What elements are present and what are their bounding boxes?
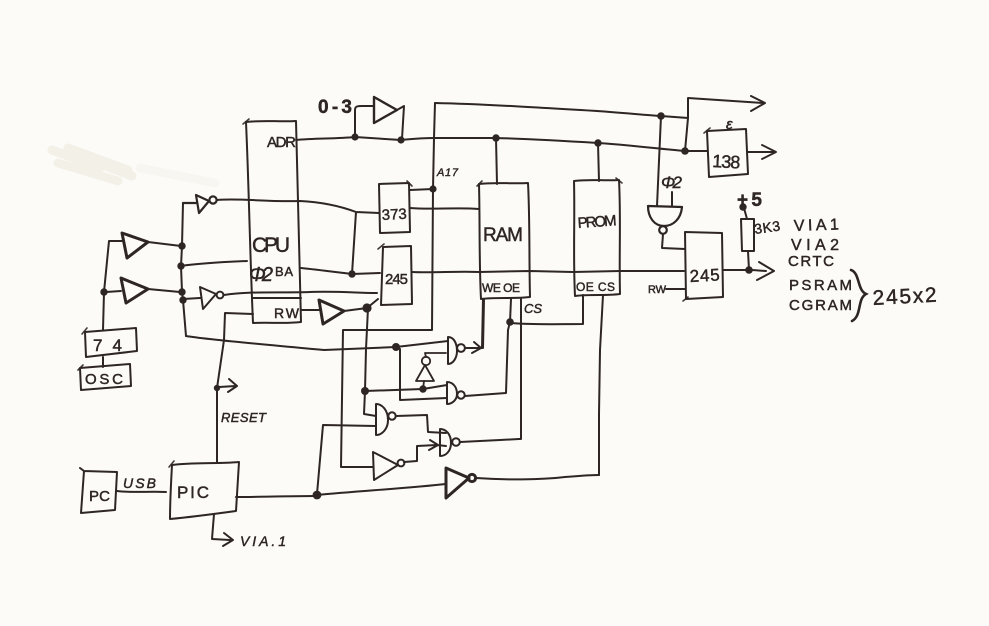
svg-text:0-3: 0-3 bbox=[318, 97, 352, 118]
wire PROM CS pin down long right vertical bbox=[599, 295, 603, 475]
svg-text:ADR: ADR bbox=[267, 134, 296, 151]
svg-text:138: 138 bbox=[712, 151, 741, 172]
svg-text:BA: BA bbox=[275, 264, 293, 279]
resistor R1 3K3 bbox=[741, 219, 754, 251]
wire N2 output across CPU to 245 left edge bbox=[224, 292, 377, 295]
wire RESET from CPU left edge bbox=[217, 313, 253, 462]
inverter N3 (pointing up between NANDs) bbox=[416, 353, 446, 389]
buffer B4 address 0-3 bypass bbox=[355, 106, 374, 137]
box 74 divider bbox=[85, 328, 137, 357]
svg-text:OE CS: OE CS bbox=[576, 280, 615, 294]
wire A17 long net top corner down and around to inverter N4 bbox=[341, 103, 435, 467]
node dot RW junction bbox=[362, 303, 371, 312]
wire 373 to A17 node bbox=[410, 189, 433, 190]
svg-text:PC: PC bbox=[89, 488, 110, 505]
arrow VIA1 from PIC bottom bbox=[212, 514, 233, 546]
arrow reset tap bbox=[219, 379, 237, 392]
wire BA bus CPU to 245a bbox=[301, 268, 380, 274]
box 245b bbox=[685, 232, 723, 299]
wire RW to NAND2 input bbox=[365, 385, 447, 391]
box 138 decoder bbox=[707, 129, 748, 177]
wire data bus 245a through RAM PROM to 245b bbox=[412, 271, 684, 272]
svg-text:245: 245 bbox=[385, 271, 408, 288]
box 373 latch bbox=[379, 183, 410, 233]
svg-text:RESET: RESET bbox=[221, 410, 267, 425]
svg-text:Φ2: Φ2 bbox=[249, 264, 273, 286]
wire RAM CS pin down to NAND4 out bbox=[519, 299, 521, 439]
gate NAND3 bbox=[376, 404, 396, 435]
label phi2 stub bbox=[671, 192, 673, 206]
wire node bus vertical (phi2 net) bbox=[181, 203, 186, 336]
node dot phi2 branch bbox=[177, 262, 184, 269]
wire resistor to output node bbox=[748, 251, 749, 270]
svg-text:245: 245 bbox=[689, 265, 720, 286]
buffer B2 (clock buffer lower) bbox=[121, 278, 148, 303]
wire phi2 into CPU bbox=[181, 261, 247, 266]
wire N1 output across CPU to 373 and BA node bbox=[217, 199, 379, 274]
wire phi2 net down to NAND row bbox=[186, 336, 396, 350]
node dot E to nand bbox=[657, 112, 665, 120]
node dot OE bbox=[506, 318, 514, 326]
box CPU bbox=[246, 121, 301, 323]
node dot B2 out bbox=[178, 288, 185, 295]
wire PIC net up to NAND3 bottom input bbox=[317, 425, 376, 494]
corner overshoot ticks bbox=[78, 119, 710, 467]
svg-text:RAM: RAM bbox=[483, 225, 523, 246]
wire PROM top feed bbox=[598, 143, 599, 181]
wire RAM OE pin down to OE node bbox=[510, 299, 511, 322]
buffer B1 (clock buffer top-left) bbox=[122, 233, 148, 258]
node dot BA to 373 bbox=[348, 270, 355, 277]
pencil smudge top-left bbox=[52, 148, 215, 183]
wire N4 out to NAND4 bottom input with arrowhead bbox=[404, 440, 446, 462]
node dot +5 bbox=[739, 203, 746, 210]
wire NAND5 out to 245b bbox=[662, 234, 685, 249]
box PIC bbox=[170, 462, 239, 519]
wire RAM top feed bbox=[496, 138, 497, 184]
inverter N4 (before NAND4) bbox=[373, 452, 404, 480]
wire RW node to 245a corner bbox=[367, 299, 378, 308]
node dot A17 bbox=[429, 185, 436, 192]
arrow 138 output bbox=[748, 145, 776, 159]
svg-text:CGRAM: CGRAM bbox=[789, 297, 852, 314]
svg-text:A17: A17 bbox=[436, 167, 459, 179]
wire NAND4 out right then up to RAM CS bbox=[460, 439, 519, 442]
wire NAND1 out to RAM WE with arrowhead bbox=[465, 299, 483, 353]
wire OE node to PROM OE pin bbox=[510, 295, 583, 324]
box OSC oscillator bbox=[80, 364, 131, 390]
inverter N2 (mid, phi2 tap) bbox=[183, 287, 223, 309]
gate NAND1 (WE) bbox=[448, 337, 457, 364]
wire B5 out long to PROM CS vertical bbox=[476, 475, 599, 479]
svg-text:245x2: 245x2 bbox=[872, 284, 937, 310]
wire 373 to RAM bbox=[410, 208, 479, 209]
wire PIC net to buffer B5 bbox=[317, 484, 446, 495]
node dot E to 138 bbox=[681, 147, 689, 155]
box RAM bbox=[479, 183, 530, 299]
svg-text:OSC: OSC bbox=[85, 371, 123, 388]
wire NAND2 out up to OE node bbox=[465, 322, 510, 396]
wire 245b output with arrowhead bbox=[723, 262, 774, 280]
wire B2 output to node bus bbox=[148, 289, 180, 292]
gate NAND2 (OE) bbox=[447, 382, 457, 404]
svg-text:CPU: CPU bbox=[252, 234, 290, 257]
node dot inverter tap bbox=[419, 385, 426, 392]
node dot PIC net bbox=[313, 491, 322, 500]
box PC bbox=[80, 468, 117, 513]
node dot adr loop right bbox=[397, 136, 404, 143]
node dot PROM top feed bbox=[594, 139, 601, 146]
wire RW net down to gates bbox=[364, 308, 376, 416]
svg-text:PSRAM: PSRAM bbox=[789, 277, 852, 294]
wire B1 output to node bus bbox=[148, 242, 181, 246]
svg-text:373: 373 bbox=[381, 206, 407, 224]
node dot inverter branch bbox=[179, 296, 186, 303]
divider RW compartment bbox=[252, 297, 301, 299]
wire ADR bus out of CPU bbox=[296, 137, 707, 151]
node dot adr loop left bbox=[351, 133, 358, 140]
svg-text:VIA1: VIA1 bbox=[794, 216, 840, 235]
svg-text:Φ2: Φ2 bbox=[661, 173, 683, 192]
gate NAND5 phi2 (pointing down) bbox=[648, 206, 682, 234]
buffer B5 (bold, PIC to PROM CS) bbox=[446, 468, 476, 498]
wire PIC output right bbox=[236, 496, 317, 497]
brace 245x2 bbox=[851, 270, 866, 321]
svg-text:USB: USB bbox=[123, 475, 156, 491]
svg-text:PROM: PROM bbox=[577, 212, 617, 232]
node dot RAM top feed bbox=[492, 134, 499, 141]
wire resistor to +5 bbox=[744, 208, 747, 219]
wire PC to PIC bbox=[117, 491, 166, 492]
arrowhead E top bbox=[751, 96, 765, 111]
svg-text:ε: ε bbox=[726, 116, 733, 133]
buffer B3 RW out of CPU bbox=[301, 309, 319, 311]
svg-text:PIC: PIC bbox=[177, 483, 209, 502]
node dot RW to NAND2 bbox=[361, 387, 369, 395]
node dot buffer inputs bbox=[100, 288, 107, 295]
svg-text:RW: RW bbox=[274, 305, 300, 321]
svg-text:RW: RW bbox=[648, 284, 667, 296]
node dot B1 out bbox=[178, 242, 185, 249]
wire E dot down to phi2 NAND bbox=[657, 116, 661, 206]
wire RAM WE pin down bbox=[483, 299, 484, 348]
wire NAND3 out to NAND4 top input bbox=[396, 415, 446, 433]
wire RW buffer out to node bbox=[344, 308, 367, 311]
node dot reset tap bbox=[214, 385, 220, 391]
wire phi2 branch down to NAND2 bottom input bbox=[396, 347, 447, 400]
wire phi2 branch to NAND1 top input bbox=[396, 341, 448, 347]
node dot phi2 to NAND1/NAND2 bbox=[392, 343, 400, 351]
inverter N1 (top small, to 373) bbox=[183, 195, 217, 213]
svg-text:WE OE: WE OE bbox=[482, 281, 520, 295]
gate NAND4 (CS) bbox=[440, 429, 451, 456]
svg-text:VIA2: VIA2 bbox=[791, 237, 839, 254]
node dot output bbox=[745, 266, 753, 274]
wire 74 to OSC bbox=[102, 357, 104, 367]
wire RW dash into 245b bbox=[666, 288, 685, 290]
wire E net top from A17 corner to right bbox=[435, 98, 763, 151]
svg-text:VIA.1: VIA.1 bbox=[240, 533, 286, 549]
wire left input column OSC to buffers bbox=[103, 241, 122, 330]
box PROM bbox=[574, 180, 620, 296]
box 245a data buffer bbox=[381, 246, 412, 305]
svg-text:CS: CS bbox=[524, 301, 542, 316]
